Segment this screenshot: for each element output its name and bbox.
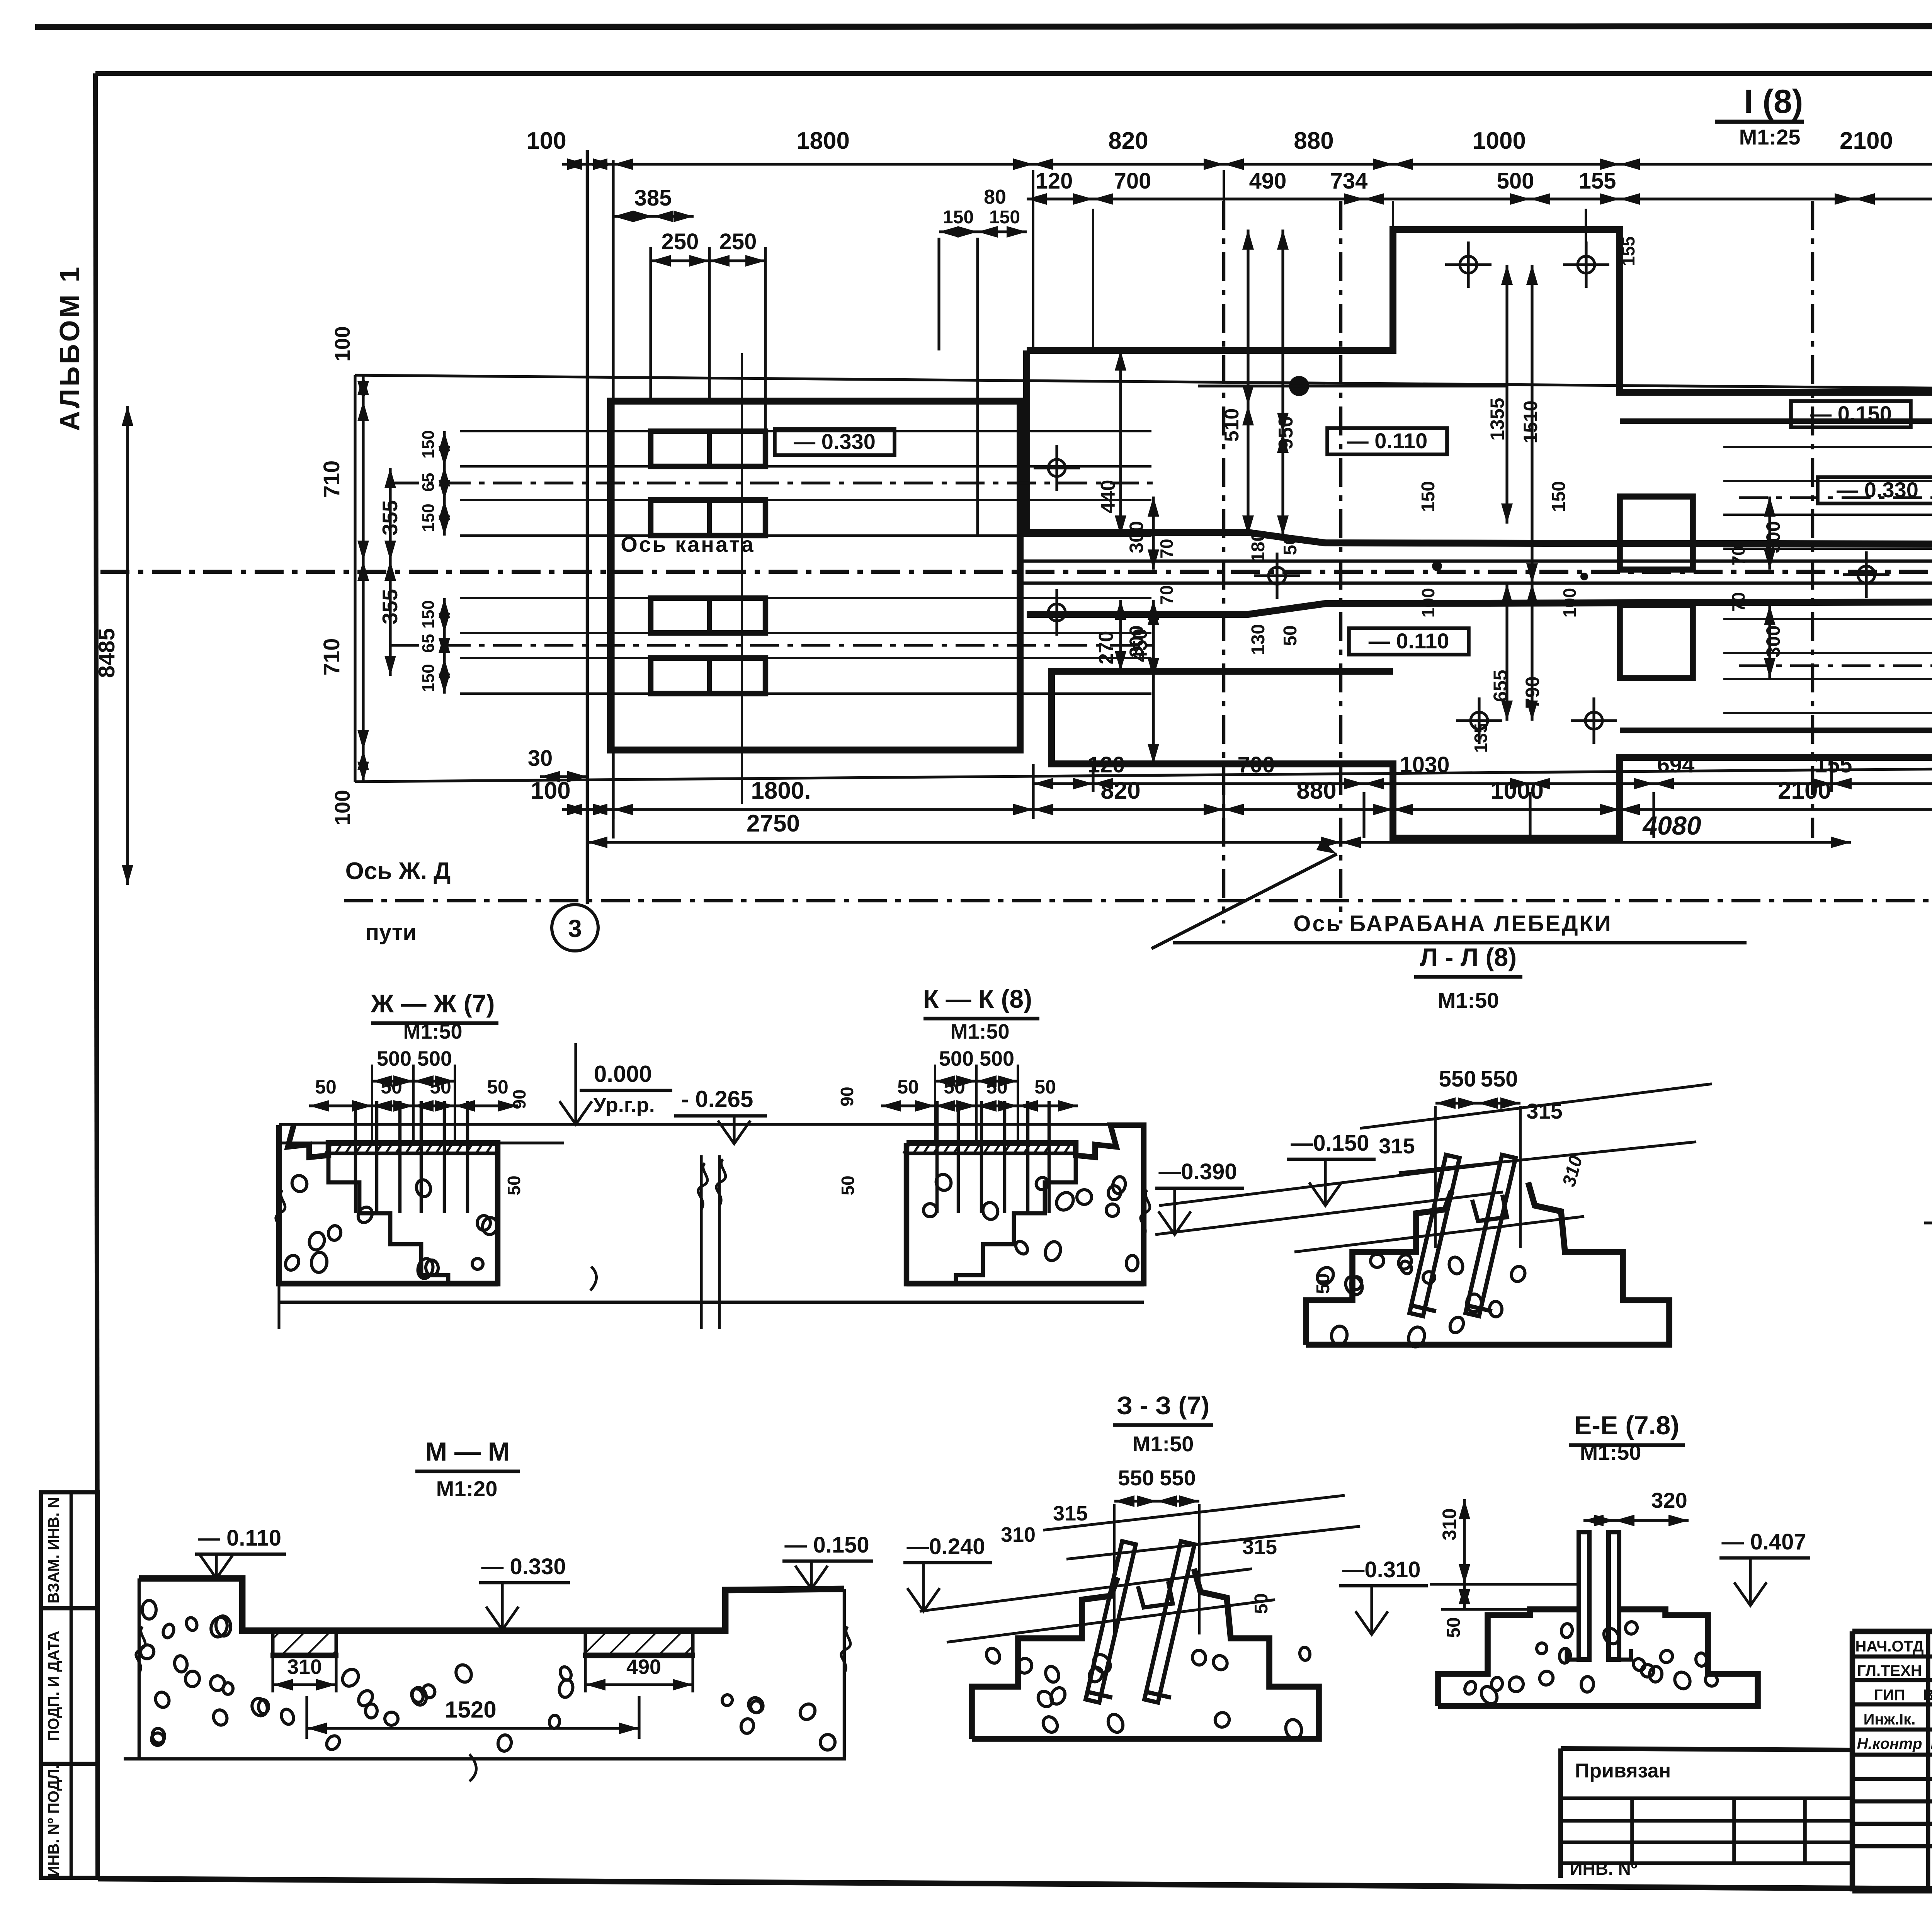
svg-text:120: 120 [1036,168,1073,194]
svg-text:— 0.407: — 0.407 [1721,1529,1806,1554]
svg-text:100: 100 [330,326,354,362]
svg-text:М — М: М — М [425,1437,510,1466]
svg-text:50: 50 [897,1076,919,1098]
svg-text:50: 50 [504,1175,524,1195]
svg-text:70: 70 [1156,585,1177,605]
svg-text:300: 300 [1762,625,1784,657]
svg-text:500: 500 [417,1047,452,1070]
svg-text:НАЧ.ОТД: НАЧ.ОТД [1855,1638,1924,1655]
svg-text:— 0.110: — 0.110 [198,1526,281,1551]
svg-text:100: 100 [526,128,566,154]
svg-text:ИНВ. Nº: ИНВ. Nº [1570,1859,1637,1879]
svg-text:50: 50 [315,1076,337,1098]
svg-text:310: 310 [1439,1508,1460,1540]
svg-text:М1:50: М1:50 [1133,1432,1194,1456]
svg-text:90: 90 [509,1089,529,1109]
svg-text:490: 490 [1249,168,1287,194]
svg-text:490: 490 [626,1655,661,1679]
svg-text:1000: 1000 [1473,128,1526,154]
svg-text:ГЛ.ТЕХН: ГЛ.ТЕХН [1857,1662,1922,1679]
svg-text:ВЗАМ. ИНВ. N: ВЗАМ. ИНВ. N [45,1497,62,1604]
svg-text:550: 550 [1481,1066,1518,1092]
svg-text:АЛЬБОМ 1: АЛЬБОМ 1 [54,265,85,431]
svg-text:655: 655 [1490,670,1511,702]
svg-text:ВИНОГРАДОВ: ВИНОГРАДОВ [1923,1687,1932,1704]
svg-text:М1:50: М1:50 [1438,988,1499,1012]
svg-text:550: 550 [1439,1066,1476,1092]
svg-text:355: 355 [378,589,402,624]
svg-text:М1:20: М1:20 [436,1476,498,1501]
svg-text:—0.390: —0.390 [1158,1159,1237,1184]
svg-text:310: 310 [1001,1523,1036,1546]
svg-text:500: 500 [980,1047,1014,1070]
svg-text:— 0.150: — 0.150 [1810,401,1892,426]
svg-text:100: 100 [1560,588,1580,618]
svg-text:1800.: 1800. [751,777,811,804]
svg-text:— 0.150: — 0.150 [784,1532,869,1558]
svg-text:I (8): I (8) [1744,83,1803,120]
svg-text:50: 50 [944,1076,965,1098]
svg-text:Виноградов: Виноградов [1930,1735,1932,1752]
svg-text:50: 50 [1280,625,1301,646]
svg-text:100: 100 [1418,588,1438,618]
svg-text:Ось каната: Ось каната [621,532,755,556]
svg-text:180: 180 [1248,531,1269,562]
svg-text:300: 300 [1762,521,1784,553]
svg-text:70: 70 [1156,539,1177,558]
svg-text:Н.контр: Н.контр [1857,1735,1922,1752]
svg-text:790: 790 [1522,676,1543,708]
svg-text:3: 3 [568,915,582,942]
svg-text:65: 65 [419,473,438,492]
svg-text:50: 50 [487,1076,509,1098]
svg-text:2750: 2750 [747,810,800,837]
svg-text:65: 65 [419,634,438,653]
svg-text:1355: 1355 [1486,398,1508,440]
svg-text:70: 70 [1728,592,1748,612]
svg-text:150: 150 [419,503,438,532]
svg-text:550: 550 [1160,1466,1196,1490]
svg-text:150: 150 [943,207,974,228]
svg-text:710: 710 [319,461,344,498]
svg-text:Ур.г.р.: Ур.г.р. [593,1094,655,1117]
svg-text:150: 150 [419,664,438,692]
svg-text:700: 700 [1114,168,1151,194]
svg-text:500: 500 [1497,168,1534,194]
svg-text:М1:50: М1:50 [950,1020,1009,1043]
svg-text:—0.240: —0.240 [906,1534,985,1559]
svg-text:50: 50 [1444,1617,1464,1638]
svg-text:Привязан: Привязан [1575,1760,1671,1782]
svg-text:8485: 8485 [94,628,119,678]
svg-text:270: 270 [1095,631,1117,665]
svg-text:880: 880 [1294,128,1333,154]
svg-text:М1:50: М1:50 [403,1020,462,1043]
svg-text:315: 315 [1379,1134,1415,1158]
svg-text:694: 694 [1657,752,1695,777]
svg-text:З - З (7): З - З (7) [1117,1391,1209,1420]
svg-text:50: 50 [381,1076,402,1098]
svg-text:— 0.330: — 0.330 [481,1554,566,1579]
svg-text:150: 150 [419,430,438,458]
svg-text:1800: 1800 [796,128,850,154]
svg-text:710: 710 [319,638,344,676]
svg-text:— 0.330: — 0.330 [794,429,876,454]
svg-text:734: 734 [1330,168,1368,194]
svg-text:ПОДП. И ДАТА: ПОДП. И ДАТА [45,1631,62,1741]
svg-text:130: 130 [1248,624,1269,655]
svg-text:50: 50 [838,1175,858,1195]
svg-text:155: 155 [1579,168,1616,194]
svg-text:К — К (8): К — К (8) [923,985,1032,1013]
svg-text:310: 310 [287,1655,322,1679]
svg-text:М1:25: М1:25 [1739,125,1801,149]
svg-text:700: 700 [1238,752,1275,777]
svg-text:— 0.330: — 0.330 [1837,478,1918,502]
svg-text:155: 155 [1815,752,1852,777]
svg-text:155: 155 [1618,236,1638,266]
svg-text:2100: 2100 [1840,128,1893,154]
svg-text:- 0.265: - 0.265 [681,1086,753,1112]
svg-text:—0.310: —0.310 [1342,1557,1420,1582]
svg-text:Инж.Iк.: Инж.Iк. [1864,1711,1916,1728]
svg-text:150: 150 [1418,481,1439,512]
svg-text:Ось Ж. Д: Ось Ж. Д [345,858,451,884]
svg-text:100: 100 [531,777,570,804]
svg-text:ИНВ. Nº ПОДЛ.: ИНВ. Nº ПОДЛ. [45,1765,62,1877]
svg-text:ГИП: ГИП [1874,1687,1905,1704]
svg-text:100: 100 [330,790,354,825]
svg-text:50: 50 [1034,1076,1056,1098]
svg-text:150: 150 [419,600,438,628]
svg-text:250: 250 [719,229,757,254]
svg-text:880: 880 [1296,777,1336,804]
svg-text:500: 500 [939,1047,974,1070]
svg-text:150: 150 [989,207,1020,228]
svg-text:Ж — Ж (7): Ж — Ж (7) [371,989,495,1018]
svg-text:80: 80 [984,186,1006,208]
svg-text:510: 510 [1221,408,1243,442]
svg-text:315: 315 [1053,1502,1088,1525]
svg-text:950: 950 [1275,416,1297,450]
svg-text:0.000: 0.000 [594,1061,652,1087]
svg-text:— 0.110: — 0.110 [1347,429,1428,453]
svg-text:500: 500 [377,1047,412,1070]
svg-text:Ось БАРАБАНА ЛЕБЕДКИ: Ось БАРАБАНА ЛЕБЕДКИ [1293,911,1612,936]
svg-text:4080: 4080 [1642,811,1701,840]
svg-text:820: 820 [1108,128,1148,154]
svg-text:— 0.110: — 0.110 [1369,629,1449,653]
svg-text:355: 355 [378,500,402,536]
svg-text:250: 250 [662,229,699,254]
svg-text:70: 70 [1728,546,1748,565]
svg-text:50: 50 [1280,534,1301,555]
svg-text:—0.150: —0.150 [1291,1131,1369,1156]
svg-text:440: 440 [1097,480,1119,514]
svg-text:1030: 1030 [1400,752,1449,777]
svg-text:30: 30 [528,746,553,771]
svg-text:550: 550 [1118,1466,1154,1490]
svg-text:150: 150 [1549,481,1569,512]
svg-text:50: 50 [986,1076,1008,1098]
svg-text:300: 300 [1126,625,1147,657]
svg-text:300: 300 [1126,521,1147,553]
svg-text:320: 320 [1651,1488,1687,1512]
svg-text:50: 50 [430,1076,451,1098]
svg-text:1510: 1510 [1520,400,1541,443]
svg-text:385: 385 [634,185,672,211]
svg-text:М1:50: М1:50 [1580,1440,1641,1464]
svg-text:Л - Л (8): Л - Л (8) [1420,943,1517,971]
svg-text:135: 135 [1471,723,1491,753]
svg-text:90: 90 [837,1087,857,1106]
svg-text:Е-Е (7.8): Е-Е (7.8) [1574,1411,1679,1440]
svg-text:пути: пути [366,920,417,945]
svg-text:310: 310 [1559,1153,1587,1189]
svg-text:1520: 1520 [445,1697,496,1723]
